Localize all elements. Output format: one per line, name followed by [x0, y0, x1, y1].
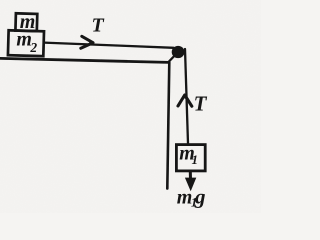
svg-text:1: 1 [192, 152, 199, 167]
svg-text:T: T [194, 91, 208, 115]
svg-text:T: T [92, 15, 105, 37]
svg-text:2: 2 [29, 40, 37, 55]
svg-text:g: g [194, 185, 206, 209]
